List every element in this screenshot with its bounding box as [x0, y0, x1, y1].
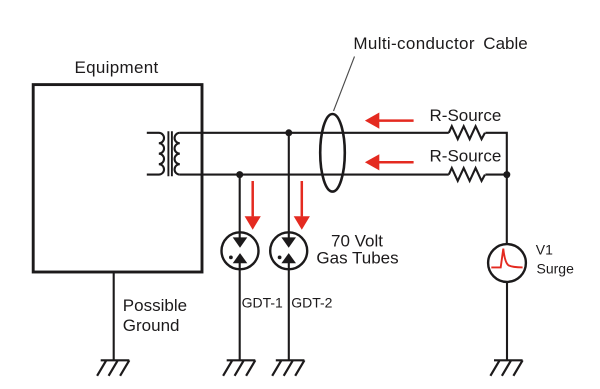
svg-text:Equipment: Equipment: [75, 58, 159, 77]
gas discharge tube GDT-1: [222, 232, 259, 269]
resistor R-Source 2: [449, 168, 485, 181]
svg-text:Surge: Surge: [537, 261, 575, 277]
wire GDT-1 lower: [239, 263, 241, 360]
svg-text:Possible: Possible: [123, 296, 187, 315]
ground symbol GDT-1: [223, 360, 255, 376]
red arrow down GDT-1: [245, 181, 261, 230]
wire GDT-2 upper: [288, 133, 290, 238]
wire V1 lower: [506, 282, 508, 360]
transformer T1 core: [168, 131, 172, 176]
wire GDT-2 lower: [288, 263, 290, 360]
svg-text:Ground: Ground: [123, 316, 180, 335]
resistor R-Source 1: [449, 126, 485, 139]
ground symbol equipment: [97, 360, 129, 376]
svg-text:R-Source: R-Source: [430, 106, 502, 125]
red arrow left bottom: [365, 154, 414, 170]
wire bottom conductor: [180, 174, 449, 176]
svg-text:GDT-1: GDT-1: [242, 295, 283, 311]
callout leader line: [334, 57, 355, 112]
multi-conductor cable ellipse: [320, 114, 345, 192]
svg-text:GDT-2: GDT-2: [291, 295, 332, 311]
svg-text:R-Source: R-Source: [430, 147, 502, 166]
wire top conductor: [180, 132, 449, 134]
wire possible ground: [113, 272, 115, 360]
node junction right (source corner): [503, 171, 510, 178]
wire GDT-1 upper: [239, 175, 241, 238]
svg-text:V1: V1: [536, 241, 553, 257]
ground symbol V1: [490, 360, 522, 376]
red arrow left top: [365, 113, 414, 129]
gas discharge tube GDT-2: [270, 232, 307, 269]
red arrow down GDT-2: [294, 181, 310, 230]
wire bottom right: [485, 174, 506, 176]
transformer T1 primary coil: [147, 133, 164, 175]
node junction top (GDT-2 tap): [285, 129, 292, 136]
surge source V1: [488, 244, 526, 282]
svg-text:Cable: Cable: [483, 34, 527, 53]
svg-text:Multi-conductor: Multi-conductor: [353, 34, 474, 53]
wire top right: [485, 133, 506, 244]
svg-text:Gas Tubes: Gas Tubes: [316, 248, 398, 267]
node junction bottom (GDT-1 tap): [236, 171, 243, 178]
ground symbol GDT-2: [272, 360, 304, 376]
transformer T1 secondary coil: [175, 133, 180, 175]
equipment box: [33, 85, 202, 272]
